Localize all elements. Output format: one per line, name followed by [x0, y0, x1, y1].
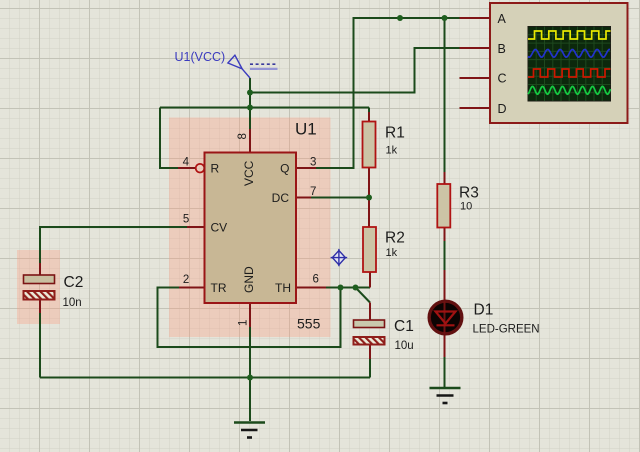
svg-text:10n: 10n: [63, 297, 82, 309]
pin 8 VCC stub: [249, 108, 251, 153]
svg-text:6: 6: [313, 274, 319, 286]
svg-text:5: 5: [183, 214, 189, 226]
junction node TR-TH: [338, 285, 344, 291]
wire GND pin to ground symbol: [249, 327, 251, 421]
pin stub C2 top: [39, 263, 41, 276]
svg-text:LED-GREEN: LED-GREEN: [473, 324, 540, 336]
svg-text:U1: U1: [295, 120, 317, 139]
pin stub scope A: [460, 17, 491, 19]
selection highlight around C2: [17, 250, 60, 324]
junction node VCC rail: [247, 105, 253, 111]
junction node R3 top rail: [442, 15, 448, 21]
svg-text:3: 3: [310, 157, 316, 169]
svg-text:4: 4: [183, 157, 190, 169]
LED D1: [429, 301, 462, 334]
waveform channel B blue: [528, 49, 610, 57]
pin stub R2 bottom: [369, 272, 371, 288]
wire A rail to R3: [444, 18, 446, 172]
oscilloscope instrument: [490, 3, 628, 123]
cursor crosshair: [331, 249, 348, 266]
op-amp U1 555 timer body: [205, 153, 297, 304]
pin stub CV pin5: [187, 226, 205, 228]
resistor R2: [363, 227, 376, 272]
svg-text:CV: CV: [211, 221, 228, 235]
svg-text:R1: R1: [385, 125, 405, 142]
pin stub C1 bottom: [369, 345, 371, 360]
pin stub TR pin2: [179, 287, 205, 289]
svg-text:C2: C2: [64, 274, 84, 291]
svg-text:D: D: [498, 102, 507, 116]
capacitor C2: [24, 275, 55, 300]
junction node scope A rail: [397, 15, 403, 21]
scope screen: [528, 27, 611, 102]
svg-text:1k: 1k: [386, 145, 398, 157]
svg-text:10u: 10u: [395, 340, 414, 352]
svg-text:C1: C1: [394, 318, 414, 335]
pin stub DC pin7: [296, 197, 311, 199]
svg-text:7: 7: [310, 186, 316, 198]
svg-text:2: 2: [183, 274, 189, 286]
svg-text:TR: TR: [211, 281, 227, 295]
pin stub GND pin1: [249, 303, 251, 327]
waveform channel C red: [528, 69, 611, 77]
wire VCC rail row to R1: [160, 107, 369, 109]
junction node DC / R1-R2: [366, 195, 372, 201]
svg-text:555: 555: [297, 316, 321, 332]
svg-text:TH: TH: [275, 281, 291, 295]
selection highlight around U1: [169, 118, 331, 338]
ground below D1: [430, 388, 461, 403]
wire R3 to D1: [444, 228, 446, 301]
svg-text:R2: R2: [385, 230, 405, 247]
wire ground rail: [40, 377, 370, 379]
pin stub C1 top: [369, 303, 371, 321]
wire diagonal TH node to C1: [356, 288, 371, 303]
wire left loop to pin 4: [160, 108, 178, 169]
ground below IC: [234, 423, 265, 438]
pin stub R pin4: [178, 167, 196, 169]
svg-text:R: R: [211, 162, 220, 176]
resistor R1: [363, 122, 376, 168]
svg-text:C: C: [498, 72, 507, 86]
node label U1(VCC) voltage probe: [175, 50, 278, 78]
wire D1 to ground: [444, 335, 446, 388]
svg-text:Q: Q: [280, 162, 289, 176]
wire C1 bottom leg: [369, 359, 371, 378]
wire VCC node to scope B input: [250, 48, 460, 93]
svg-text:D1: D1: [474, 302, 494, 319]
svg-text:U1(VCC): U1(VCC): [175, 50, 226, 64]
svg-text:R3: R3: [459, 185, 479, 202]
svg-text:1: 1: [238, 320, 250, 326]
wire C2 to ground rail: [39, 313, 41, 378]
pin stub scope D: [460, 107, 491, 109]
pin stub scope C: [460, 77, 491, 79]
wire DC to R1-R2 node: [311, 197, 369, 199]
svg-text:DC: DC: [272, 191, 290, 205]
capacitor C1: [354, 320, 385, 345]
pin stub R3 top: [444, 172, 446, 184]
resistor R3: [437, 184, 450, 228]
svg-text:B: B: [498, 42, 506, 56]
wire Q output up to scope A: [316, 18, 460, 168]
svg-text:10: 10: [460, 201, 472, 213]
wire between VCC nodes: [249, 93, 251, 108]
inversion bubble pin 4: [196, 164, 205, 173]
svg-text:8: 8: [237, 133, 249, 139]
svg-text:GND: GND: [242, 266, 256, 293]
svg-text:A: A: [498, 12, 507, 26]
waveform channel D green: [528, 86, 611, 94]
junction node TH-C1: [353, 285, 359, 291]
svg-text:1k: 1k: [386, 247, 398, 259]
pin stub scope B: [460, 47, 491, 49]
wire CV to C2: [40, 227, 187, 263]
pin stub C2 bottom: [39, 300, 41, 314]
pin link R1 bottom to R2 top: [368, 168, 370, 228]
wire TH node row: [326, 287, 370, 289]
pin stub R1 top: [368, 108, 370, 122]
wire TR loop under IC to TH node: [158, 288, 341, 348]
wire VCC probe drop to node: [249, 78, 251, 93]
pin stub Q pin3: [296, 167, 316, 169]
pin stub TH pin6: [296, 287, 326, 289]
svg-text:VCC: VCC: [242, 160, 256, 186]
junction node ground rail: [247, 375, 253, 381]
waveform channel A yellow: [528, 31, 611, 39]
junction node VCC probe: [247, 90, 253, 96]
